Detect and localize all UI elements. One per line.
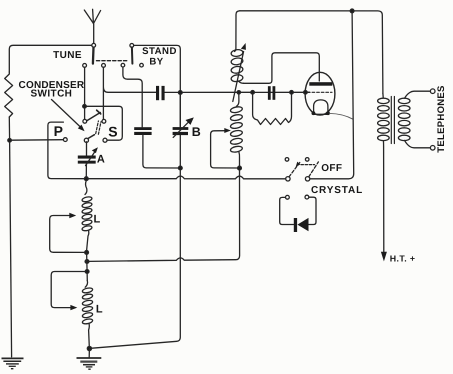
node L link junction [85, 260, 89, 264]
wire top-left horizontal [9, 45, 92, 72]
svg-text:S: S [108, 123, 117, 139]
capacitor B arrow [173, 117, 194, 137]
wire tap loop with arrow [211, 128, 238, 168]
node capB / fixed-cap junction [178, 166, 182, 170]
node rotary bottom-left contact [63, 138, 67, 142]
node antenna junction [92, 43, 96, 47]
capacitor A arrow [86, 147, 98, 165]
node rotary top-centre contact [83, 119, 87, 123]
label STAND BY [142, 46, 177, 67]
valve anode bar [309, 82, 332, 86]
node S-branch junction [83, 105, 87, 109]
svg-text:L: L [96, 303, 103, 315]
transformer primary winding [378, 93, 390, 252]
wire rotary pivot to capacitor A [86, 142, 88, 156]
wire pole2 pivot to stand-by corner down [134, 45, 181, 127]
wire ground stub [88, 349, 90, 358]
node grid-leak left junction [251, 91, 255, 95]
wire fixed cap bottom lead to cap B line [143, 135, 179, 168]
wire long LT horizontal with hops [85, 176, 286, 179]
node rotary top-right contact [102, 119, 106, 123]
wire secondary bottom down to L-coil link [89, 170, 240, 261]
node secondary bottom junction [238, 166, 242, 170]
transformer secondary winding [398, 91, 430, 148]
wire left vertical to ground [9, 117, 11, 357]
node ground junction [87, 346, 91, 350]
inductor anode coil (variable) [231, 49, 244, 83]
wire filament to HT/off vertical [330, 113, 353, 119]
node grid-leak right junction [290, 91, 294, 95]
wire pole2 left contact down to junction [123, 67, 142, 127]
node pole1 contact right [102, 64, 106, 68]
svg-text:CRYSTAL: CRYSTAL [311, 185, 363, 196]
svg-text:L: L [94, 214, 101, 226]
node pole1 contact left [83, 64, 87, 68]
wire anode coil to tube top cap [244, 53, 320, 84]
node L2 top / bracket junction [85, 270, 89, 274]
node coupling-cap / standby line junction [178, 91, 182, 95]
diode crystal [294, 218, 309, 232]
svg-text:P: P [54, 123, 63, 139]
inductor L1 [82, 181, 93, 251]
switch STAND BY pole2 blade [131, 47, 134, 63]
svg-text:SWITCH: SWITCH [30, 89, 72, 100]
node top wire / off-line junction [350, 9, 354, 13]
svg-text:A: A [97, 154, 105, 166]
wire off-line vertical [310, 12, 354, 179]
capacitor B (variable) [173, 127, 189, 135]
wire capB line (standby vertical continues) [92, 94, 180, 348]
wire L2 tap bracket with arrow [51, 272, 85, 311]
wire main grid horizontal [165, 91, 310, 93]
H.T.+ arrow [381, 252, 387, 262]
anode coil arrow [233, 43, 246, 102]
node pole2 contact right [140, 63, 144, 67]
wire anode coil top lead [235, 11, 240, 52]
wire coil axis between junctions [86, 252, 89, 280]
inductor secondary (tuned) coil [230, 94, 243, 167]
svg-text:B: B [192, 125, 201, 139]
switch TUNE pole1 blade [92, 48, 95, 64]
ground (aerial side) [2, 358, 24, 368]
valve V1 envelope [305, 72, 335, 115]
node telephone terminal top [430, 89, 435, 94]
node L1 bottom / bracket junction [85, 251, 89, 255]
capacitor coupling (series) [156, 86, 165, 100]
resistor R (aerial series) [5, 72, 13, 117]
inductor L2 [82, 281, 93, 348]
valve filament [312, 100, 330, 115]
node pole2 contact left [121, 63, 125, 67]
switch OFF contacts [285, 158, 289, 162]
wire capA bottom lead [85, 164, 87, 177]
node rotary bottom-right contact [103, 138, 107, 142]
wire TUNE left contact down [84, 67, 86, 119]
wire to rotary bottom-left contact [11, 139, 63, 142]
wire P contacts loop [48, 122, 85, 179]
svg-text:TUNE: TUNE [53, 50, 82, 61]
svg-text:TELEPHONES: TELEPHONES [436, 85, 447, 152]
resistor grid leak [253, 94, 292, 125]
svg-text:BY: BY [149, 57, 163, 68]
svg-text:OFF: OFF [321, 163, 342, 174]
label arrow to rotary switch [52, 100, 85, 132]
wire TUNE right contact down, corner into main wire [103, 67, 156, 119]
svg-text:STAND: STAND [142, 46, 177, 57]
switch rotary blade (dashed) [87, 110, 101, 138]
wire top HT horizontal [240, 11, 383, 94]
node grid wire at envelope [304, 91, 308, 95]
antenna [84, 9, 100, 43]
wire S branch (to bottom-right contact) [86, 106, 122, 140]
node capA bottom junction [84, 177, 88, 181]
node grid-wire / secondary coil top junction [237, 91, 240, 94]
wire L1 tap bracket with arrow [50, 213, 85, 253]
node left-vertical / P-line junction [8, 139, 12, 143]
capacitor grid [268, 86, 275, 100]
wire gang linkage dashes [97, 60, 129, 62]
node telephone terminal bottom [430, 146, 435, 151]
valve grid (dashed) [308, 91, 333, 93]
switch OFF blades [289, 162, 318, 177]
crystal detector holder [280, 195, 316, 224]
label CONDENSER SWITCH [19, 80, 85, 100]
ground (set side) [77, 358, 102, 369]
capacitor A (variable, plates) [78, 156, 96, 164]
switch rotary pivot [84, 138, 88, 142]
switch STAND BY pole2 pivot [130, 44, 134, 48]
transformer core [391, 97, 394, 144]
svg-text:H.T. +: H.T. + [390, 254, 416, 264]
capacitor fixed (below standby wire) [134, 127, 151, 135]
